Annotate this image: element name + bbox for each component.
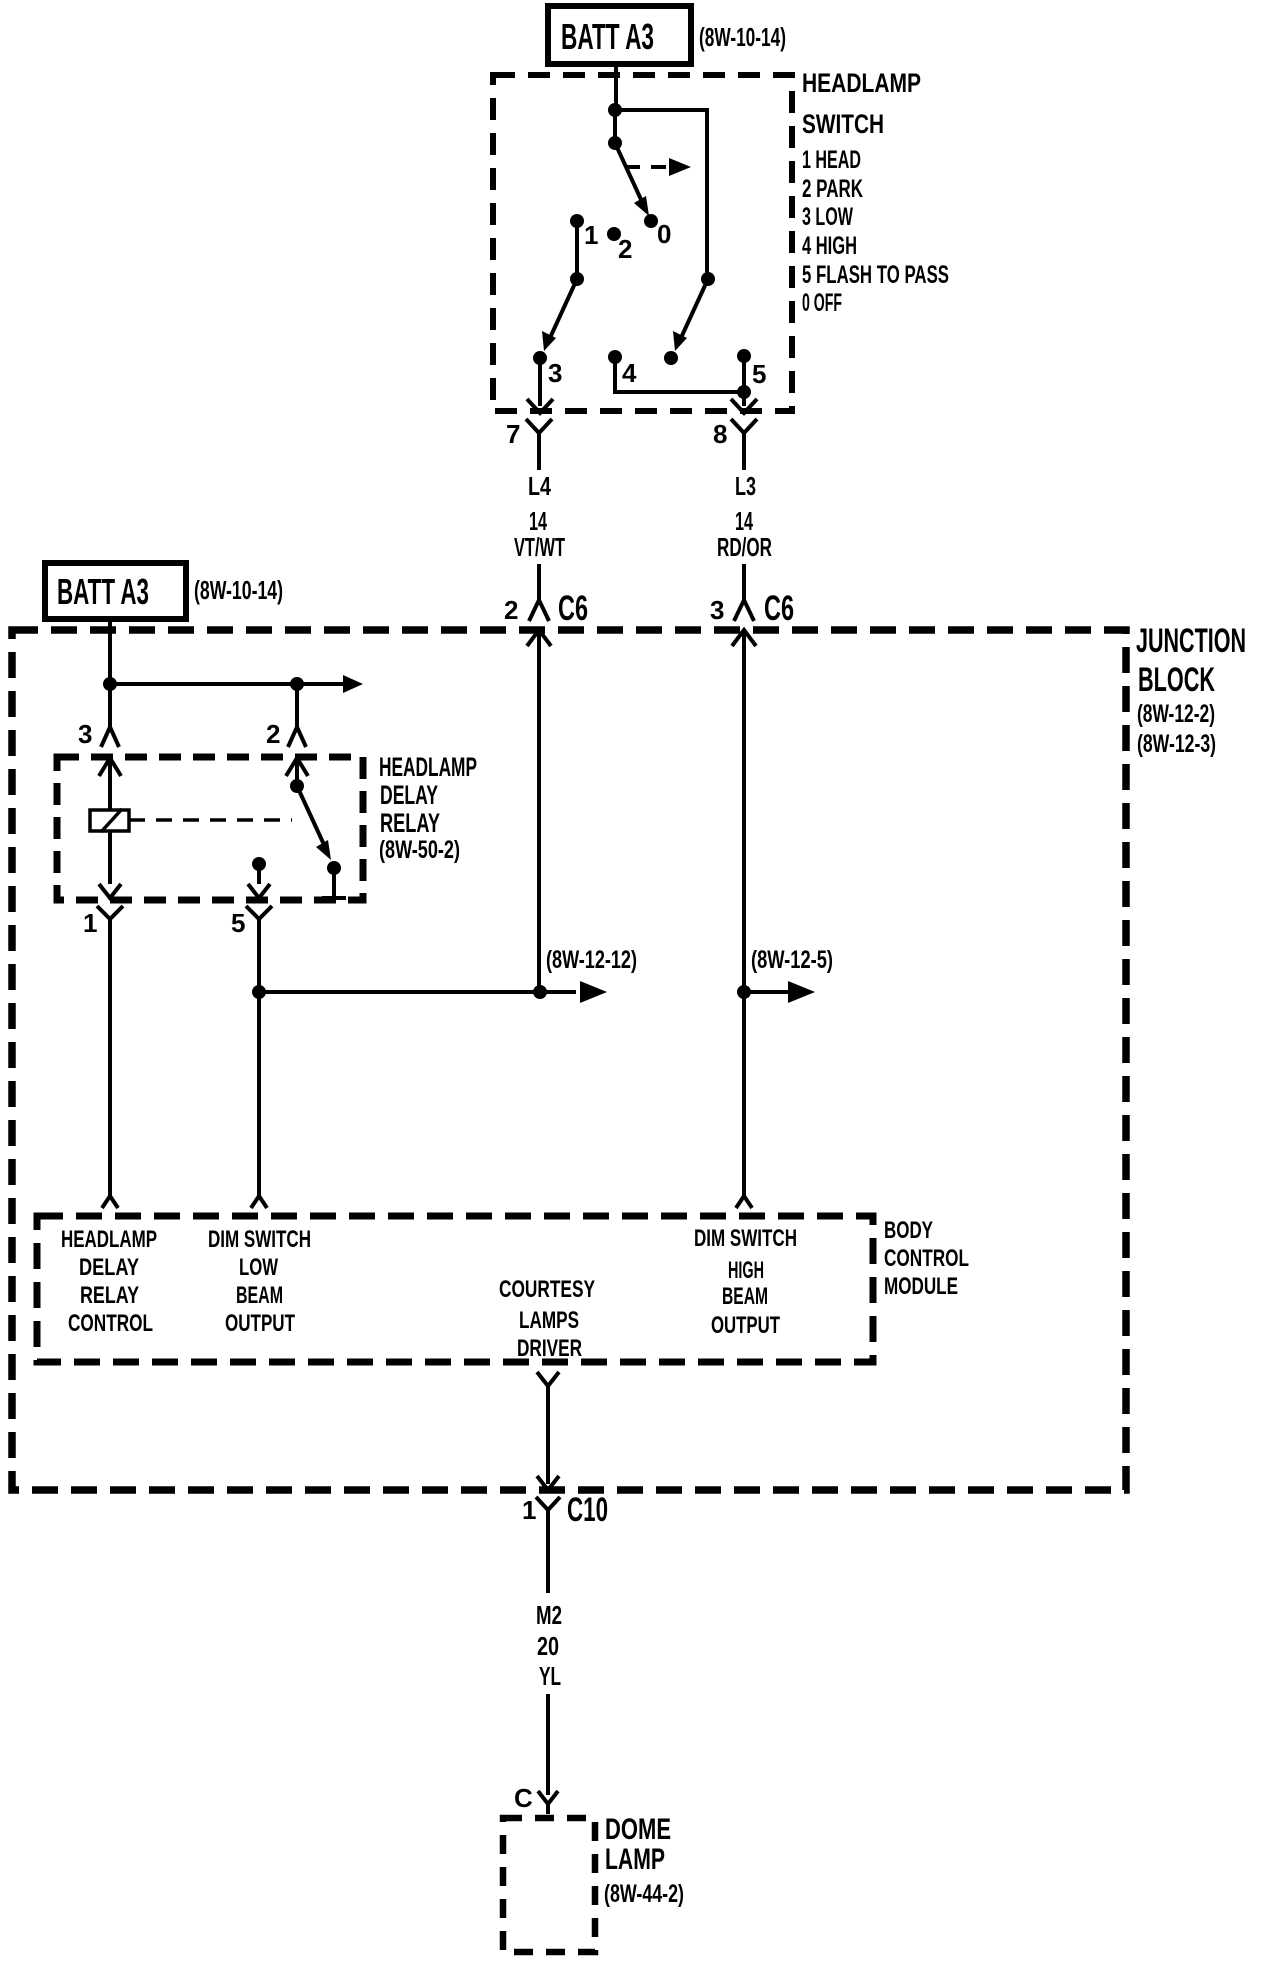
- svg-text:L3: L3: [735, 471, 756, 501]
- node dot feed: [103, 677, 117, 691]
- svg-text:HEADLAMP: HEADLAMP: [802, 68, 921, 98]
- pin 8 connector fork: [713, 419, 757, 449]
- BCM pin labels column 4: [694, 1225, 797, 1339]
- coil linkage dashed line: [129, 818, 292, 822]
- pin 7 connector fork: [506, 419, 552, 449]
- svg-text:3: 3: [710, 595, 724, 625]
- svg-text:HEADLAMP: HEADLAMP: [379, 752, 477, 782]
- svg-text:BODY: BODY: [884, 1217, 933, 1244]
- wire contact1 down: [575, 221, 579, 279]
- node dot right branch: [701, 272, 715, 286]
- svg-text:MODULE: MODULE: [884, 1273, 958, 1300]
- wire label M2 20 YL: [536, 1600, 562, 1691]
- svg-text:4 HIGH: 4 HIGH: [802, 232, 857, 260]
- svg-text:RD/OR: RD/OR: [717, 532, 772, 562]
- wire L3 lower: [742, 564, 746, 600]
- wire relay pin1 to BCM: [108, 932, 112, 1196]
- wiper arm to contact between 4 and 5: [673, 279, 708, 351]
- contact 2: [607, 227, 621, 241]
- svg-text:M2: M2: [536, 1600, 562, 1630]
- svg-text:DIM SWITCH: DIM SWITCH: [208, 1226, 311, 1253]
- svg-text:(8W-12-12): (8W-12-12): [546, 946, 637, 974]
- svg-text:8: 8: [713, 419, 727, 449]
- connector C6 pin 3: [710, 589, 794, 646]
- svg-text:CONTROL: CONTROL: [68, 1310, 153, 1337]
- svg-text:BLOCK: BLOCK: [1138, 661, 1215, 699]
- svg-text:20: 20: [537, 1631, 559, 1661]
- svg-text:LAMP: LAMP: [605, 1843, 665, 1876]
- wire contact5 down: [742, 356, 746, 406]
- svg-text:YL: YL: [539, 1661, 561, 1691]
- wire contact4 to bus: [615, 357, 744, 392]
- svg-text:2 PARK: 2 PARK: [802, 175, 863, 203]
- BCM pin fork (relay control): [102, 1196, 118, 1208]
- junction block exit chevron: [537, 1476, 559, 1490]
- junction block labels: [1136, 622, 1246, 758]
- svg-text:RELAY: RELAY: [80, 1282, 139, 1309]
- svg-text:1: 1: [584, 220, 598, 250]
- svg-text:VT/WT: VT/WT: [514, 532, 565, 562]
- relay contact terminal dot: [327, 861, 341, 875]
- wire label L3 14 RD/OR: [717, 471, 772, 562]
- BCM dashed box: [37, 1216, 873, 1362]
- svg-text:LOW: LOW: [239, 1254, 278, 1281]
- svg-text:5: 5: [231, 908, 245, 938]
- contact 0: [644, 214, 658, 228]
- svg-text:(8W-12-5): (8W-12-5): [751, 946, 833, 974]
- wire relay pin5 down: [257, 932, 261, 1196]
- svg-text:2: 2: [504, 595, 518, 625]
- svg-text:C6: C6: [764, 589, 794, 628]
- relay coil: [90, 809, 129, 832]
- svg-text:(8W-50-2): (8W-50-2): [379, 836, 460, 864]
- svg-text:BEAM: BEAM: [722, 1283, 768, 1310]
- relay pin2 entry arrow: [286, 758, 308, 786]
- dome lamp dashed box: [503, 1818, 595, 1952]
- pin 8 exit chevron: [731, 399, 757, 413]
- svg-text:C10: C10: [567, 1491, 608, 1529]
- svg-text:7: 7: [506, 419, 520, 449]
- relay pin5 wire + exit arrow: [248, 864, 270, 898]
- svg-text:DELAY: DELAY: [79, 1254, 139, 1281]
- svg-text:(8W-12-3): (8W-12-3): [1137, 730, 1216, 758]
- svg-text:1 HEAD: 1 HEAD: [802, 146, 861, 174]
- svg-text:2: 2: [618, 234, 632, 264]
- wire C6 pin2 down to tap: [537, 630, 541, 992]
- relay pin3 entry arrow: [99, 758, 121, 810]
- relay pin5 dot: [252, 857, 266, 871]
- high beam arrow: [744, 981, 815, 1003]
- svg-text:3 LOW: 3 LOW: [802, 203, 853, 231]
- contact 4: [608, 350, 622, 364]
- relay contact terminal stub: [322, 868, 346, 898]
- BCM pin labels column 3: [499, 1276, 595, 1362]
- wire M2 upper: [546, 1523, 550, 1593]
- svg-text:JUNCTION: JUNCTION: [1136, 622, 1246, 660]
- wire L3 upper: [742, 447, 746, 470]
- wire to right branch: [615, 110, 707, 279]
- svg-text:2: 2: [266, 719, 280, 749]
- svg-text:LAMPS: LAMPS: [519, 1307, 579, 1334]
- svg-text:C6: C6: [558, 589, 588, 628]
- BATT A3 box (left): [45, 563, 186, 619]
- node dot under contact5: [737, 385, 751, 399]
- connector C dome lamp fork: [514, 1783, 558, 1814]
- svg-text:3: 3: [548, 358, 562, 388]
- wire from BATT A3 into switch: [614, 64, 618, 110]
- svg-text:(8W-10-14): (8W-10-14): [699, 22, 786, 52]
- contact 1: [570, 214, 584, 228]
- connector C6 pin 2: [504, 589, 588, 646]
- svg-text:DOME: DOME: [605, 1813, 671, 1846]
- wire contact3 to pin7: [538, 358, 542, 406]
- relay pin 1 fork: [83, 906, 123, 938]
- svg-text:RELAY: RELAY: [380, 808, 440, 838]
- dome lamp labels: [604, 1813, 684, 1908]
- relay pin 2 fork: [266, 719, 306, 749]
- node dot (wiper pivot): [608, 136, 622, 150]
- contact mid (unlabeled): [664, 351, 678, 365]
- wire common down to wiper pivot: [613, 110, 617, 143]
- node dot VT/WT join: [533, 985, 547, 999]
- relay name labels: [379, 752, 477, 864]
- svg-text:DIM SWITCH: DIM SWITCH: [694, 1225, 797, 1252]
- svg-text:(8W-44-2): (8W-44-2): [604, 1880, 684, 1908]
- BCM pin fork (high beam): [736, 1196, 752, 1208]
- BCM pin fork (low beam): [251, 1196, 267, 1208]
- relay contact pivot dot: [290, 779, 304, 793]
- node dot branch pin2: [290, 677, 304, 691]
- node dot high beam tap: [737, 985, 751, 999]
- svg-text:CONTROL: CONTROL: [884, 1245, 969, 1272]
- svg-text:(8W-12-2): (8W-12-2): [1137, 700, 1215, 728]
- wire L4 upper: [537, 447, 541, 470]
- relay pin 5 fork: [231, 906, 272, 938]
- svg-text:1: 1: [83, 908, 97, 938]
- svg-text:COURTESY: COURTESY: [499, 1276, 595, 1303]
- svg-text:0: 0: [657, 219, 671, 249]
- relay contact arm: [297, 786, 331, 860]
- low beam bus wire: [259, 990, 576, 994]
- contact 5: [737, 349, 751, 363]
- wiper arm to position 0: [615, 143, 649, 216]
- relay pin1 exit arrow: [99, 884, 121, 898]
- wire C6 pin3 down: [742, 630, 746, 1196]
- svg-text:HIGH: HIGH: [728, 1257, 764, 1284]
- svg-text:DRIVER: DRIVER: [517, 1335, 582, 1362]
- svg-text:SWITCH: SWITCH: [802, 109, 884, 139]
- svg-text:OUTPUT: OUTPUT: [711, 1312, 780, 1339]
- svg-text:OUTPUT: OUTPUT: [225, 1310, 295, 1337]
- svg-text:5 FLASH TO PASS: 5 FLASH TO PASS: [802, 261, 949, 289]
- svg-text:0 OFF: 0 OFF: [802, 289, 842, 317]
- contact 3: [533, 351, 547, 365]
- svg-text:BEAM: BEAM: [236, 1282, 283, 1309]
- svg-text:(8W-10-14): (8W-10-14): [194, 575, 283, 605]
- svg-text:5: 5: [752, 359, 766, 389]
- wire label L4 14 VT/WT: [514, 471, 565, 562]
- wire from BATT A3 into junction block: [108, 619, 112, 684]
- BCM pin labels column 2: [208, 1226, 311, 1337]
- svg-text:1: 1: [522, 1495, 536, 1525]
- svg-text:BATT A3: BATT A3: [57, 571, 149, 612]
- wire L4 lower: [537, 564, 541, 600]
- BCM pin labels column 1: [61, 1226, 157, 1337]
- headlamp delay relay dashed box: [57, 757, 363, 900]
- courtesy driver output fork: [537, 1372, 559, 1398]
- svg-text:DELAY: DELAY: [380, 780, 438, 810]
- BATT A3 box (top): [548, 6, 691, 64]
- junction block dashed box: [12, 630, 1126, 1490]
- connector C10 pin 1 fork: [522, 1491, 608, 1529]
- relay pin 2 wire: [295, 684, 299, 727]
- svg-text:BATT A3: BATT A3: [561, 16, 654, 57]
- svg-text:HEADLAMP: HEADLAMP: [61, 1226, 157, 1253]
- node common feed dot: [608, 103, 622, 117]
- low beam arrow: [580, 981, 607, 1003]
- pin 7 exit chevron: [527, 399, 553, 413]
- relay pin 3 wire: [108, 684, 112, 727]
- wire courtesy driver down: [546, 1398, 550, 1484]
- headlamp switch name labels: [802, 68, 949, 317]
- svg-text:3: 3: [78, 719, 92, 749]
- relay coil to pin1 wire: [108, 831, 112, 884]
- wiper arm to contact 3: [542, 279, 577, 351]
- node dot: [570, 272, 584, 286]
- svg-text:C: C: [514, 1783, 533, 1813]
- relay pin 3 fork: [78, 719, 119, 749]
- svg-text:L4: L4: [528, 471, 551, 501]
- svg-text:4: 4: [622, 358, 637, 388]
- node dot low beam tap: [252, 985, 266, 999]
- movement direction arrow (dashed): [625, 158, 691, 176]
- headlamp switch dashed box: [493, 75, 792, 411]
- BCM name labels: [884, 1217, 969, 1300]
- wire M2 lower: [546, 1694, 550, 1795]
- feed bus wire with arrow: [110, 675, 363, 693]
